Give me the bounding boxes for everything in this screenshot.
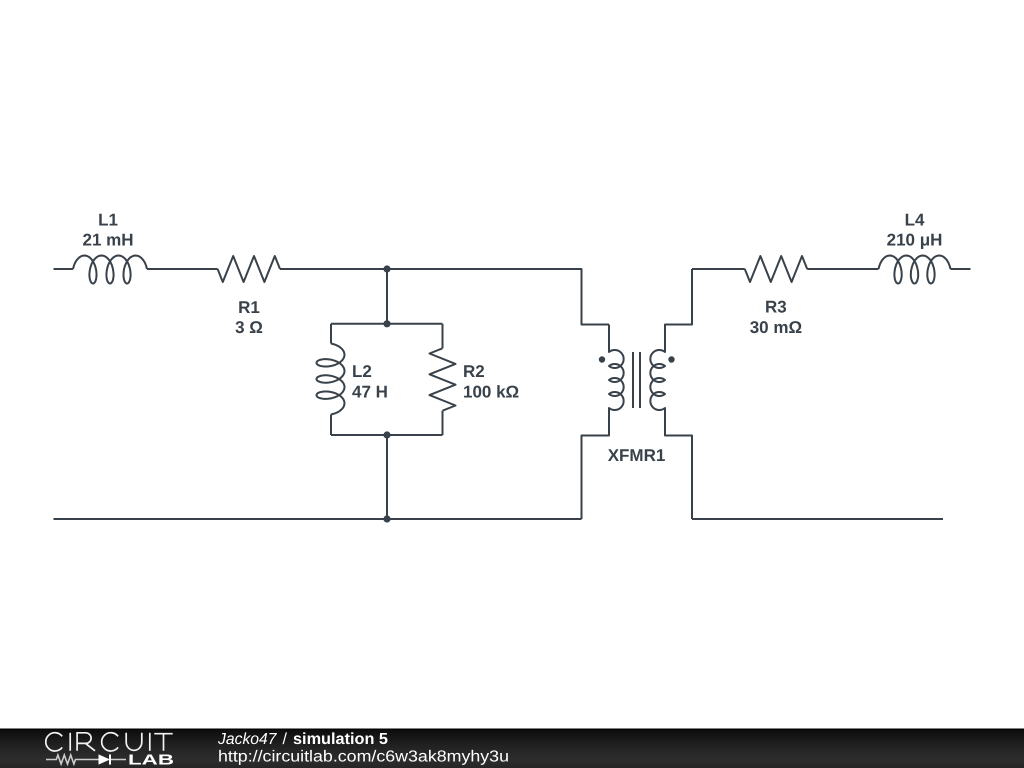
svg-text:100 kΩ: 100 kΩ bbox=[463, 382, 519, 401]
svg-text:http://circuitlab.com/c6w3ak8m: http://circuitlab.com/c6w3ak8myhy3u bbox=[218, 749, 509, 766]
svg-text:XFMR1: XFMR1 bbox=[608, 446, 666, 465]
svg-text:R3: R3 bbox=[765, 298, 787, 317]
svg-text:30 mΩ: 30 mΩ bbox=[750, 318, 802, 337]
svg-text:47 H: 47 H bbox=[352, 382, 388, 401]
svg-text:L4: L4 bbox=[905, 210, 925, 229]
svg-text:L2: L2 bbox=[352, 362, 372, 381]
svg-text:210 μH: 210 μH bbox=[887, 231, 943, 250]
svg-text:LAB: LAB bbox=[128, 753, 174, 768]
svg-text:/: / bbox=[283, 731, 288, 748]
svg-text:simulation 5: simulation 5 bbox=[293, 731, 388, 748]
svg-text:21 mH: 21 mH bbox=[82, 231, 133, 250]
svg-text:R1: R1 bbox=[238, 298, 260, 317]
svg-text:L1: L1 bbox=[98, 210, 118, 229]
svg-text:Jacko47: Jacko47 bbox=[217, 731, 278, 748]
svg-text:3 Ω: 3 Ω bbox=[235, 318, 263, 337]
svg-text:R2: R2 bbox=[463, 362, 485, 381]
